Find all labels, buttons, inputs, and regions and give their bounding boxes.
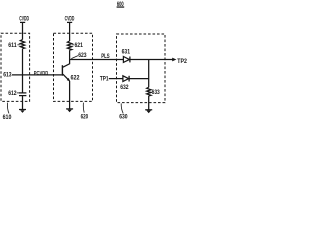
node 623 label bbox=[78, 52, 87, 59]
label 631 bbox=[122, 49, 131, 56]
power symbol CVDD (middle) bbox=[67, 21, 72, 23]
wire resistor 633 to ground bbox=[148, 96, 150, 110]
label TP1 bbox=[100, 76, 109, 83]
wire CVDD to resistor 621 bbox=[69, 22, 71, 41]
underline of 600 bbox=[117, 6, 125, 8]
net label PLS bbox=[101, 53, 109, 60]
svg-text:TP1: TP1 bbox=[100, 76, 109, 83]
node 613 label bbox=[3, 72, 12, 79]
figure label 600 bbox=[117, 1, 124, 8]
label 622 bbox=[71, 74, 80, 81]
leader of label 623 bbox=[71, 56, 78, 59]
svg-text:612: 612 bbox=[8, 90, 17, 97]
wire capacitor 612 to ground bbox=[22, 96, 24, 110]
resistor 621 bbox=[67, 41, 71, 50]
diode 632 bbox=[123, 76, 129, 82]
leader of label 611 bbox=[17, 44, 20, 46]
label 630 bbox=[119, 113, 128, 120]
svg-text:CVDD: CVDD bbox=[65, 17, 75, 23]
svg-text:613: 613 bbox=[3, 72, 12, 79]
svg-text:633: 633 bbox=[152, 89, 161, 96]
net label PCVDD bbox=[34, 71, 48, 77]
transistor 622 emitter wire with arrow bbox=[63, 74, 70, 81]
svg-text:PCVDD: PCVDD bbox=[34, 71, 48, 77]
wire node 613 to transistor 622 base (net PCVDD) bbox=[12, 74, 62, 76]
net label CVDD (middle) bbox=[65, 17, 75, 23]
capacitor 612 bbox=[19, 92, 26, 94]
svg-text:CVDD: CVDD bbox=[19, 17, 29, 23]
wire junction node to resistor 633 bbox=[148, 60, 150, 88]
ground (below resistor 633) bbox=[145, 109, 152, 111]
svg-text:623: 623 bbox=[78, 52, 87, 59]
wire emitter to ground bbox=[69, 81, 71, 109]
label 611 bbox=[8, 42, 17, 49]
wire diode 632 to junction node bbox=[129, 78, 149, 80]
resistor 633 bbox=[147, 87, 151, 96]
svg-text:PLS: PLS bbox=[101, 53, 109, 60]
label 612 bbox=[8, 90, 17, 97]
wire node 623 to diode 631 (net PLS) bbox=[70, 59, 124, 61]
label 610 bbox=[3, 114, 12, 121]
label 621 bbox=[75, 42, 84, 49]
leader of label 610 bbox=[7, 103, 9, 114]
dashed box 620 bbox=[54, 33, 93, 101]
svg-text:610: 610 bbox=[3, 114, 12, 120]
svg-text:622: 622 bbox=[71, 74, 80, 81]
net label CVDD (left) bbox=[19, 17, 29, 23]
ground (below capacitor 612) bbox=[19, 109, 26, 111]
resistor 611 bbox=[20, 40, 24, 49]
leader of label 621 bbox=[72, 44, 74, 46]
svg-text:621: 621 bbox=[75, 42, 84, 49]
svg-text:631: 631 bbox=[122, 49, 131, 56]
wire resistor 621 to node 623 bbox=[69, 50, 71, 59]
dashed box 630 bbox=[117, 34, 166, 103]
label 632 bbox=[120, 84, 129, 91]
label TP2 bbox=[177, 58, 187, 65]
arrow TP2 bbox=[172, 58, 176, 62]
power symbol CVDD (left) bbox=[20, 21, 25, 23]
svg-text:632: 632 bbox=[120, 84, 129, 91]
transistor 622 base bar bbox=[61, 65, 63, 76]
wire TP1 to diode 632 bbox=[109, 78, 123, 80]
svg-text:620: 620 bbox=[81, 113, 89, 120]
wire resistor 611 to capacitor 612 bbox=[22, 49, 24, 93]
wire CVDD to resistor 611 bbox=[22, 22, 24, 39]
leader of label 630 bbox=[121, 103, 123, 113]
wire diode 631 to TP2 output bbox=[130, 59, 173, 61]
label 620 bbox=[81, 113, 89, 120]
svg-text:611: 611 bbox=[8, 42, 17, 49]
label 633 bbox=[152, 89, 161, 96]
leader of label 612 bbox=[17, 92, 19, 94]
dashed box 610 bbox=[1, 33, 30, 101]
svg-text:630: 630 bbox=[119, 113, 128, 120]
transistor 622 collector wire bbox=[63, 60, 70, 68]
leader of label 620 bbox=[82, 103, 85, 113]
svg-text:TP2: TP2 bbox=[177, 58, 187, 65]
ground (below transistor 622) bbox=[66, 108, 73, 110]
diode 631 bbox=[123, 57, 129, 63]
